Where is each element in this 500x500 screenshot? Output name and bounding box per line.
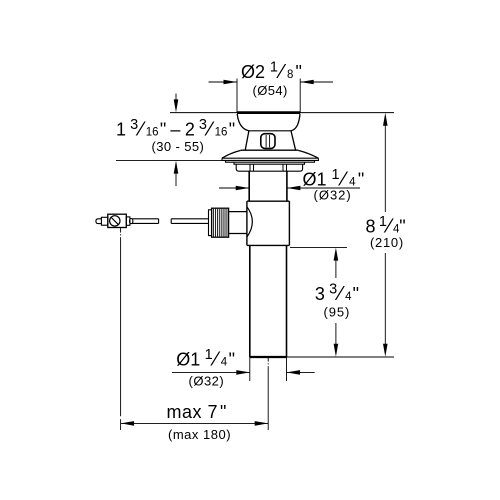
svg-text:(95): (95) bbox=[324, 304, 351, 319]
dim Ø2 1/8: left arrow line bbox=[209, 81, 238, 83]
ring slot left bbox=[249, 164, 251, 171]
tee body bottom bbox=[247, 244, 290, 246]
dim 30-55: bottom arrow shaft bbox=[175, 173, 177, 186]
upper pipe left edge bbox=[248, 171, 250, 201]
svg-text:(210): (210) bbox=[370, 235, 404, 250]
svg-text:(Ø54): (Ø54) bbox=[253, 83, 288, 98]
arrowhead Ø2 left bbox=[224, 80, 238, 85]
side outlet top bbox=[229, 211, 247, 213]
dim max7: dimension line bbox=[121, 422, 269, 424]
dim 3 3/4: top ext line bbox=[290, 246, 347, 248]
pivot tab bbox=[126, 217, 130, 225]
tee body right edge bbox=[288, 201, 290, 245]
dim Ø1 1/4 top: right arrow line bbox=[287, 187, 360, 189]
dim Ø2 1/8: right ext line bbox=[299, 79, 301, 113]
svg-text:(30 - 55): (30 - 55) bbox=[152, 139, 205, 154]
tailpiece left edge bbox=[249, 245, 251, 357]
cap knob rib 2 bbox=[269, 135, 271, 147]
dim Ø1 1/4 bottom: right arrow line bbox=[287, 371, 315, 373]
tee body left edge bbox=[246, 201, 248, 245]
pipe bottom edge bbox=[250, 356, 287, 358]
dim 30-55: lower ext line bbox=[116, 159, 222, 161]
svg-text:(max 180): (max 180) bbox=[168, 427, 231, 442]
arrowhead Ø2 right bbox=[300, 80, 314, 85]
pivot tiny ellipse bbox=[130, 219, 133, 224]
cap upper left side bbox=[237, 114, 249, 131]
lever rod segment left bbox=[132, 218, 159, 220]
arrowhead 3 3/4 top bbox=[334, 248, 339, 261]
pivot block bbox=[108, 214, 127, 227]
dim 3 3/4: line upper part bbox=[335, 259, 337, 278]
ring slot right bbox=[282, 164, 284, 171]
pivot screw bbox=[110, 216, 120, 226]
dim 3 3/4: line lower part bbox=[335, 323, 337, 345]
arrowhead Ø1 bottom-right bbox=[287, 370, 301, 375]
lever rod segment right bbox=[171, 218, 208, 220]
dim Ø1 1/4 bottom: right pipe ext bbox=[286, 357, 288, 381]
arrowhead 8 1/4 top bbox=[383, 113, 388, 126]
pivot nub bbox=[96, 219, 102, 224]
flange rim band 1 bbox=[222, 158, 318, 160]
pivot collar bbox=[101, 217, 107, 225]
dim Ø1 1/4 bottom: left pipe ext bbox=[249, 357, 251, 381]
cap lower left side bbox=[245, 131, 249, 150]
dim 30-55: top arrow shaft bbox=[175, 94, 177, 101]
arrowhead 8 1/4 bottom bbox=[383, 344, 388, 357]
cap waist line bbox=[249, 130, 291, 132]
dim Ø2 1/8: left ext line bbox=[236, 79, 238, 113]
cap upper right side bbox=[291, 114, 300, 131]
arrowhead Ø1 top-right bbox=[287, 186, 301, 191]
rod break cap right bbox=[170, 219, 172, 224]
dim 8 1/4: line upper part bbox=[384, 124, 386, 212]
arrowhead max7 left bbox=[121, 421, 135, 426]
flange plateau bbox=[241, 149, 299, 151]
flange right slope bbox=[298, 150, 318, 158]
arrowhead 30-55 bottom bbox=[174, 161, 179, 174]
tee inner ball fillet bbox=[247, 207, 252, 237]
slotted locknut ring bbox=[236, 164, 302, 171]
knurl ribs bbox=[214, 209, 227, 237]
tee body top bbox=[247, 200, 290, 202]
arrowhead max7 right bbox=[255, 421, 269, 426]
dim Ø2 1/8: right arrow line bbox=[300, 81, 333, 83]
cap knob rib 1 bbox=[265, 135, 267, 147]
cap top thick edge bbox=[237, 111, 300, 114]
svg-text:max 7": max 7" bbox=[167, 402, 227, 422]
arrowhead 30-55 top bbox=[174, 99, 179, 112]
knurled nut bbox=[212, 208, 229, 237]
centerline pivot (dash-dot) bbox=[120, 228, 122, 233]
cap lower right side bbox=[291, 131, 296, 150]
dim 8 1/4: ext bottom (pipe bottom level) bbox=[287, 356, 395, 358]
dim Ø1 1/4 bottom: left arrow line bbox=[172, 371, 250, 373]
flange left slope bbox=[222, 150, 241, 158]
arrowhead 3 3/4 bottom bbox=[334, 344, 339, 357]
flange rim band 2 bbox=[226, 160, 315, 162]
svg-text:(Ø32): (Ø32) bbox=[189, 373, 225, 388]
dim Ø1 1/4 top: left arrow line bbox=[219, 187, 249, 189]
pivot screw slot bbox=[111, 218, 118, 225]
flange rim band 3 bbox=[234, 162, 305, 164]
upper pipe right edge bbox=[286, 171, 288, 201]
rod break cap left bbox=[158, 219, 160, 224]
side outlet bottom bbox=[229, 233, 247, 235]
centerline pipe (dash-dot) bbox=[267, 358, 269, 362]
extension line top (cap top level) bbox=[170, 112, 394, 114]
dim 8 1/4: line lower part bbox=[384, 253, 386, 345]
cap knob bbox=[261, 134, 275, 149]
knurl collar bbox=[209, 210, 212, 236]
tailpiece right edge bbox=[286, 245, 288, 357]
svg-text:(Ø32): (Ø32) bbox=[314, 188, 352, 203]
arrowhead Ø1 top-left bbox=[236, 186, 250, 191]
arrowhead Ø1 bottom-left bbox=[236, 370, 250, 375]
